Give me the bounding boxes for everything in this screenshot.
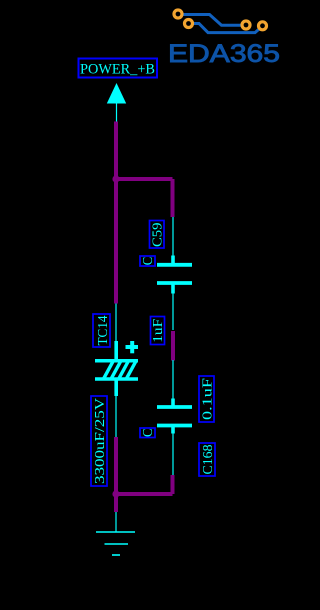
svg-text:EDA365: EDA365 [168, 40, 280, 68]
wire: top horizontal branch [116, 177, 173, 181]
wire: left vertical from power to TC14 [114, 122, 118, 304]
logo trace 2 (lower) [194, 24, 261, 33]
logo trace 1 (upper) [183, 15, 241, 26]
logo via B [185, 20, 193, 28]
ground symbol [96, 512, 135, 555]
logo via C [242, 21, 250, 29]
logo via D [259, 22, 267, 30]
wire: left branch down to ground [114, 437, 118, 512]
svg-text:1uF: 1uF [151, 319, 166, 343]
svg-text:3300uF/25V: 3300uF/25V [93, 398, 108, 484]
wire: bottom horizontal rail [116, 492, 173, 496]
logo via A [174, 10, 182, 18]
value label 1uF [151, 317, 167, 345]
capacitor C59 symbol [157, 217, 192, 330]
capacitor C59 designator label [150, 221, 166, 249]
svg-text:C168: C168 [201, 445, 216, 475]
junction node at bottom [112, 490, 119, 497]
svg-text:POWER_+B: POWER_+B [80, 62, 155, 78]
svg-text:0.1uF: 0.1uF [201, 378, 216, 420]
svg-text:TC14: TC14 [96, 316, 111, 346]
wire: right branch down to bottom rail [171, 475, 175, 494]
capacitor C168 symbol [157, 360, 192, 475]
wire: right branch between C59 and C168 [171, 331, 175, 361]
svg-text:C: C [141, 429, 156, 438]
capacitor TC14 polarized symbol [95, 304, 138, 438]
svg-text:C: C [141, 257, 156, 266]
value label 3300uF/25V [91, 396, 108, 486]
svg-text:C59: C59 [151, 223, 166, 248]
junction node at top [112, 175, 119, 182]
TC14 plus polarity mark [126, 341, 139, 353]
power port arrow symbol [107, 83, 126, 122]
power port label POWER_+B [79, 59, 158, 78]
capacitor C168 designator label [199, 443, 216, 476]
wire: right vertical down to C59 [171, 179, 175, 217]
label C (type) for C168 [140, 428, 156, 438]
label C (type) for C59 [140, 256, 156, 266]
value label 0.1uF [199, 376, 216, 422]
capacitor TC14 designator label [93, 314, 111, 347]
